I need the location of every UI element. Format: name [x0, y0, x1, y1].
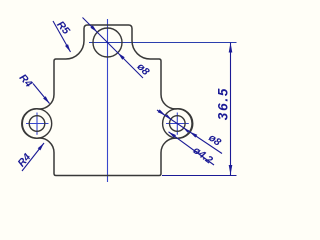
arrow ø4.2 leader [169, 132, 177, 138]
top hole horizontal centerline / extension line for 36.5 [89, 42, 237, 44]
arrow ø8 right boss upper-left [158, 109, 166, 115]
left boss crosshair vertical [36, 113, 38, 135]
arrow ø4.2 inner upper-left [165, 114, 171, 119]
arrow R4 lower [38, 143, 44, 150]
leader R4 lower [22, 143, 44, 171]
boss right outer circle [163, 109, 192, 138]
extension line bottom [162, 175, 237, 177]
arrow R5 [65, 44, 71, 52]
boss left outer circle [22, 109, 51, 138]
part outline [22, 25, 193, 176]
leader R4 upper [33, 84, 50, 104]
hole right boss [170, 116, 186, 132]
dimension arrow 36.5 bottom [229, 165, 233, 175]
centerline vertical (part axis) [107, 19, 109, 182]
leader ø4.2 right boss [169, 132, 215, 165]
leader R5 [53, 21, 71, 52]
right boss crosshair vertical [176, 113, 178, 135]
arrow ø8 top hole upper-left [90, 25, 97, 32]
arrow ø8 top hole lower-right [118, 53, 125, 60]
arrow ø8 right boss lower-right [190, 132, 198, 138]
arrow ø4.2 inner lower-right [184, 128, 190, 133]
leader ø8 right boss [157, 110, 222, 154]
left boss crosshair horizontal [26, 123, 49, 125]
dimension line 36.5 [230, 43, 232, 176]
leader ø8 top hole [83, 18, 144, 79]
svg-text:36.5: 36.5 [216, 87, 231, 120]
right boss crosshair horizontal [166, 123, 189, 125]
hole left boss [29, 116, 45, 132]
hole top (ø8) [93, 28, 122, 57]
dimension arrow 36.5 top [229, 43, 233, 53]
arrow R4 upper [43, 96, 49, 103]
